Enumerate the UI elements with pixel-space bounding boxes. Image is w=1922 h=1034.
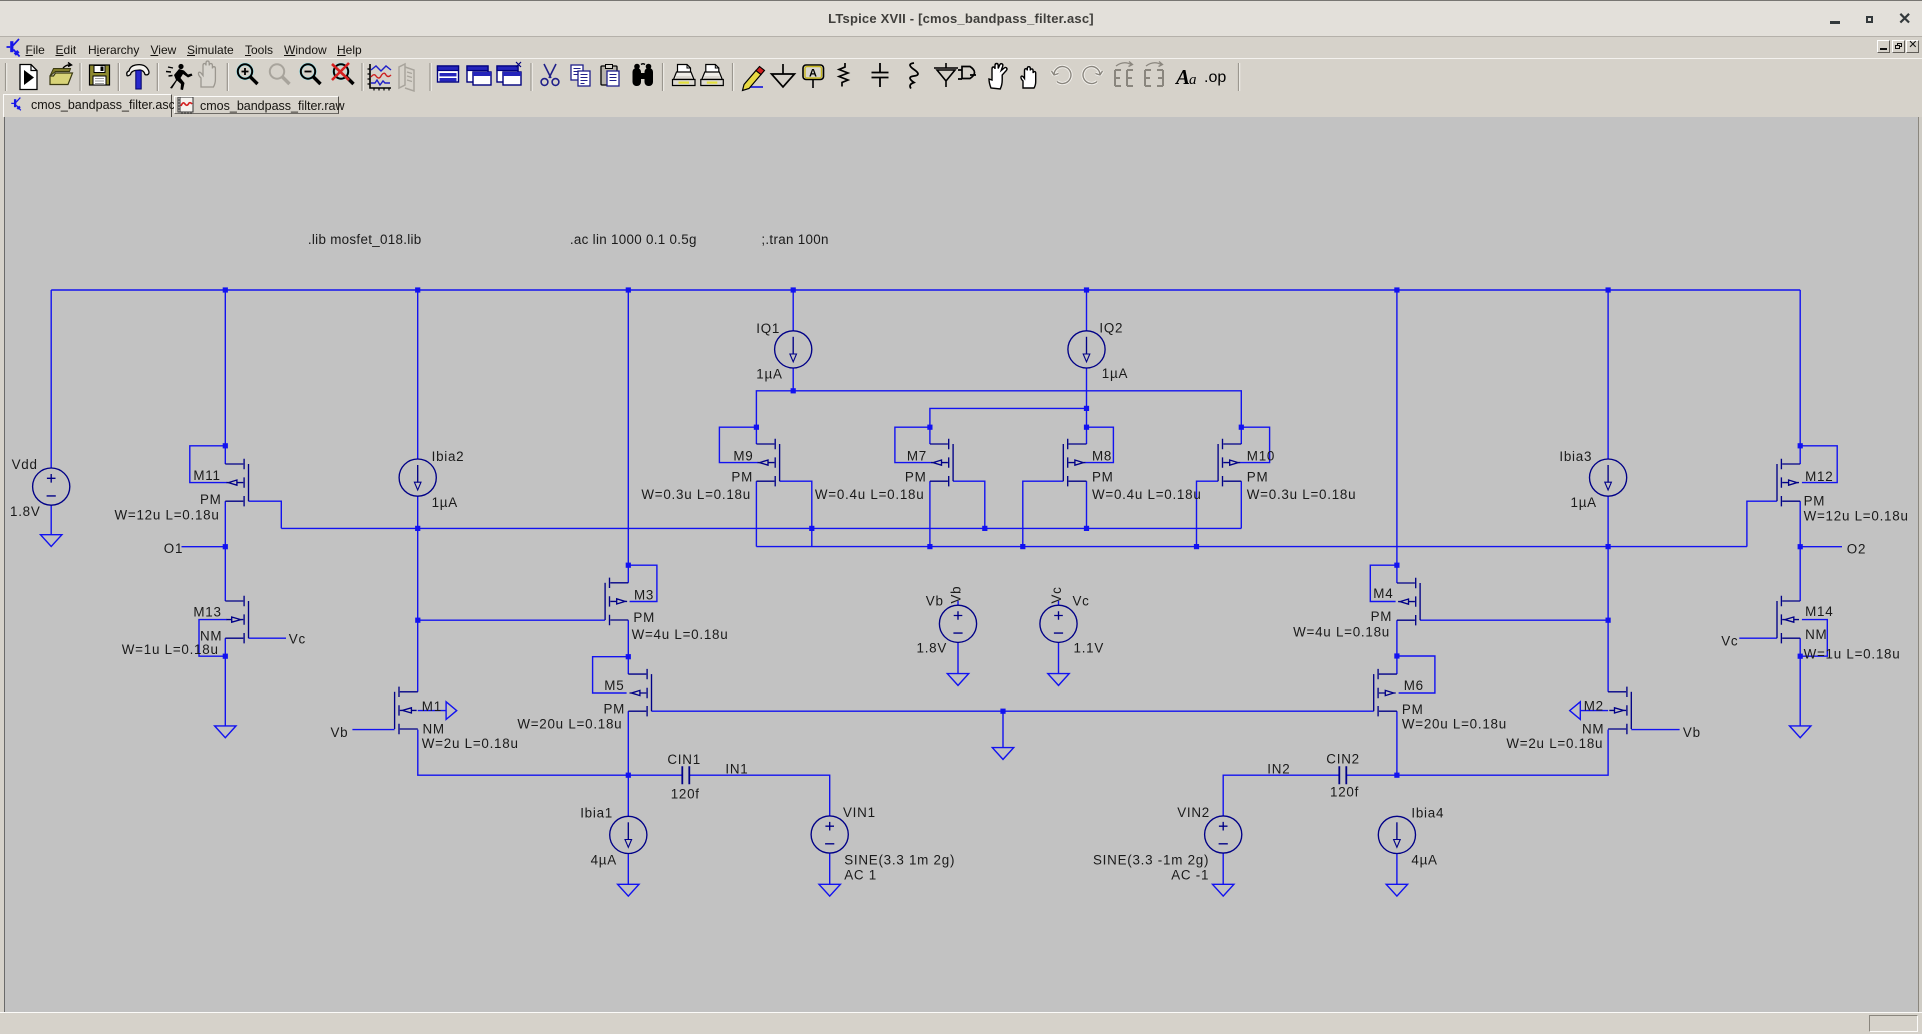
wire M3 gate line: [418, 619, 605, 621]
wire IN2 right segment: [1346, 730, 1608, 776]
wire M9 gate to upper line: [780, 481, 812, 546]
transistor M14 (NMOS): [1777, 596, 1800, 644]
svg-text:M7: M7: [907, 448, 927, 463]
wire M2 drain column: [1607, 620, 1609, 692]
ground on M5-M6 gate line: [992, 748, 1013, 760]
svg-text:W=20u L=0.18u: W=20u L=0.18u: [1402, 717, 1507, 732]
svg-text:1.8V: 1.8V: [917, 641, 948, 656]
toolbar icon: print preview: [701, 65, 724, 86]
toolbar icon: spice directive: [1204, 69, 1226, 86]
svg-text:PM: PM: [905, 470, 927, 485]
svg-text:1µA: 1µA: [1102, 366, 1128, 381]
node M6 bulk tie: [1394, 653, 1399, 658]
svg-text:A: A: [809, 68, 817, 80]
svg-text:4µA: 4µA: [591, 853, 617, 868]
inactive tab icon: [177, 97, 194, 114]
node M8 top: [1084, 425, 1089, 430]
voltage source VIN1: [811, 816, 848, 853]
toolbar icon: zoom out: [301, 64, 321, 84]
svg-text:1µA: 1µA: [1571, 495, 1597, 510]
wire Vb to ground: [957, 642, 959, 673]
toolbar icon: zoom full extents: [332, 63, 354, 84]
transistor M7 (PMOS): [930, 439, 953, 487]
node IQ1 out: [791, 388, 796, 393]
svg-text:W=0.3u L=0.18u: W=0.3u L=0.18u: [641, 487, 751, 502]
wire IN1 left segment: [418, 730, 683, 776]
svg-text:.ac lin 1000 0.1 0.5g: .ac lin 1000 0.1 0.5g: [570, 232, 697, 247]
wire Vc top stub: [1058, 601, 1060, 606]
node M14 bulk tie: [1798, 654, 1803, 659]
active tab cmos_bandpass_filter.asc: [3, 94, 172, 117]
node rail-M11: [223, 287, 228, 292]
wire M10 gate to lower line: [1197, 481, 1219, 546]
ground below M13: [215, 726, 236, 738]
toolbar icon: rotate: [1145, 62, 1163, 87]
node rail-Ibia2: [415, 287, 420, 292]
svg-text:.lib mosfet_018.lib: .lib mosfet_018.lib: [308, 232, 422, 247]
wire M9 drain to lower line: [755, 481, 757, 546]
wire IN2 left segment: [1223, 775, 1339, 816]
svg-text:Ibia4: Ibia4: [1411, 805, 1444, 820]
wire M12 gate to lower line: [1747, 501, 1777, 546]
svg-text:VIN2: VIN2: [1177, 805, 1210, 820]
svg-text:Vc: Vc: [1721, 634, 1738, 649]
ground below M14: [1790, 726, 1811, 738]
wire IN1 right segment: [689, 775, 829, 816]
node M13 bulk tie: [223, 654, 228, 659]
capacitor CIN1: [682, 766, 689, 784]
ground below Ibia1: [618, 884, 639, 896]
wire M5 drain to IN1: [627, 711, 629, 816]
node M11 gate tie: [223, 443, 228, 448]
svg-text:W=4u L=0.18u: W=4u L=0.18u: [632, 627, 729, 642]
node rail-IQ2: [1084, 287, 1089, 292]
wire M9 source column: [755, 427, 757, 444]
svg-text:120f: 120f: [1330, 784, 1359, 799]
node M9 gate-upper: [809, 526, 814, 531]
svg-text:M10: M10: [1247, 448, 1275, 463]
node M9 top: [754, 425, 759, 430]
wire M10 drain to upper line: [1240, 481, 1242, 528]
svg-text:M8: M8: [1092, 448, 1112, 463]
current source Ibia3: [1590, 459, 1627, 496]
svg-text:a: a: [1189, 72, 1197, 88]
svg-text:.op: .op: [1204, 69, 1226, 86]
svg-text:PM: PM: [1371, 609, 1393, 624]
svg-text:IN2: IN2: [1267, 761, 1290, 776]
node IQ2-M7 tie: [1084, 406, 1089, 411]
svg-text:Ibia3: Ibia3: [1559, 449, 1592, 464]
ground below VIN2: [1213, 884, 1234, 896]
ground below VIN1: [819, 884, 840, 896]
toolbar icon: run: [166, 64, 193, 90]
wire M13 gate to Vc: [249, 637, 287, 639]
node IN1-M5: [626, 773, 631, 778]
wire IQ1 top: [792, 290, 794, 331]
svg-text:M11: M11: [193, 468, 220, 483]
node rail-M3: [626, 287, 631, 292]
node rail-IQ1: [791, 287, 796, 292]
wire upper bus line: [281, 527, 1241, 529]
wire M13 source to ground: [224, 638, 226, 726]
voltage source Vdd: [33, 468, 70, 505]
svg-text:Vb: Vb: [926, 594, 944, 609]
wire M4 drain to M6: [1396, 620, 1398, 674]
wire Ibia1 to ground: [627, 854, 629, 885]
toolbar icon: zoom back (disabled): [270, 64, 290, 84]
wire VIN2 to ground: [1222, 853, 1224, 884]
current source Ibia1: [610, 816, 647, 853]
svg-text:PM: PM: [200, 492, 222, 507]
wire M11 gate to upper line: [249, 501, 282, 528]
svg-text:W=20u L=0.18u: W=20u L=0.18u: [517, 717, 622, 732]
wire M12 drain to O2: [1799, 501, 1801, 601]
wire M8 drain to upper line: [1086, 481, 1088, 528]
status bar grip panel: [1869, 1015, 1918, 1032]
wire Vb top stub: [957, 601, 959, 606]
wire M2 bulk to ground: [1580, 710, 1608, 712]
wire M5 gate-bulk loop: [593, 657, 629, 693]
toolbar icon: cascade windows 2: [497, 62, 521, 85]
toolbar icon: net label: [803, 65, 824, 88]
wire M4 gate line: [1420, 619, 1608, 621]
wire Vdd rail: [51, 289, 1800, 291]
svg-text:O2: O2: [1847, 541, 1866, 556]
svg-text:PM: PM: [633, 610, 655, 625]
node IN2-M6: [1394, 773, 1399, 778]
transistor M8 (PMOS): [1063, 439, 1086, 487]
wire M3 source column: [627, 290, 629, 583]
wire IQ2 tie line to M7: [930, 408, 1087, 427]
svg-text:Vb: Vb: [949, 586, 964, 604]
transistor M13 (NMOS): [225, 596, 248, 644]
wire lower bus line: [756, 546, 1747, 548]
node M12 gate tie: [1798, 443, 1803, 448]
wire IQ2 top: [1086, 290, 1088, 331]
node M7 top: [927, 425, 932, 430]
wire M12 source column: [1799, 290, 1801, 464]
transistor M5 (PMOS): [628, 669, 651, 717]
wire IQ2 bottom: [1086, 368, 1088, 427]
wire Vdd to rail: [50, 290, 52, 468]
toolbar icon: waveform viewer: [368, 64, 392, 91]
node M7 drain-lower: [927, 544, 932, 549]
toolbar icon: open: [50, 63, 73, 85]
node rail-M4: [1394, 287, 1399, 292]
svg-text:PM: PM: [1247, 470, 1269, 485]
wire M4 gate-bulk loop: [1370, 565, 1397, 601]
wire M7 bulk loop: [895, 427, 932, 462]
toolbar icon: cut: [541, 64, 559, 85]
svg-text:SINE(3.3 1m 2g): SINE(3.3 1m 2g): [844, 853, 955, 868]
svg-text:W=4u L=0.18u: W=4u L=0.18u: [1293, 625, 1390, 640]
svg-text:VIN1: VIN1: [843, 805, 876, 820]
wire M11 drain column: [224, 290, 226, 464]
status bar: [0, 1012, 1922, 1034]
toolbar icon: drag: [1021, 67, 1036, 88]
wire IQ1 tie line to M9 M10: [756, 391, 1241, 427]
current source Ibia4: [1378, 816, 1415, 853]
inactive tab cmos_bandpass_filter.raw: [174, 96, 339, 114]
wire M7 gate to upper line: [953, 481, 985, 528]
svg-text:IQ1: IQ1: [756, 321, 780, 336]
toolbar icon: draw wire: [743, 67, 765, 91]
svg-text:CIN1: CIN1: [667, 752, 701, 767]
ground below Vc: [1048, 674, 1069, 686]
svg-text:W=12u L=0.18u: W=12u L=0.18u: [1804, 508, 1909, 523]
svg-text:M9: M9: [733, 448, 753, 463]
node Ibia2-upper: [415, 526, 420, 531]
svg-text:PM: PM: [1092, 470, 1114, 485]
menu bar: [0, 38, 1922, 59]
node O1: [223, 544, 228, 549]
wire M1 bulk to ground: [418, 710, 446, 712]
node M7 gate-upper: [982, 526, 987, 531]
transistor M12 (PMOS): [1777, 459, 1800, 507]
toolbar icon: print: [673, 65, 696, 86]
svg-text:CIN2: CIN2: [1326, 751, 1360, 766]
toolbar icon: place diode: [934, 63, 958, 87]
svg-text:M4: M4: [1373, 586, 1393, 601]
close button: [1898, 15, 1909, 26]
wire M8 gate to lower line: [1023, 481, 1064, 546]
svg-text:PM: PM: [1804, 494, 1826, 509]
svg-text:NM: NM: [423, 721, 445, 736]
wire VIN1 to ground: [829, 853, 831, 884]
voltage source Vc: [1040, 605, 1077, 642]
node M5 bulk tie: [626, 654, 631, 659]
wire IQ1 bottom: [792, 368, 794, 391]
wire Vc to ground: [1058, 642, 1060, 673]
toolbar icon: zoom in: [238, 64, 258, 84]
wire Vdd to ground: [50, 505, 52, 534]
maximize button: [1866, 16, 1873, 23]
svg-text:W=1u L=0.18u: W=1u L=0.18u: [1804, 647, 1901, 662]
ground below Ibia4: [1386, 884, 1407, 896]
node Ibia3-lower: [1606, 544, 1611, 549]
svg-text:PM: PM: [604, 701, 626, 716]
svg-text:M3: M3: [634, 588, 654, 603]
document tabs: [0, 94, 1922, 117]
ground at M1 bulk: [446, 702, 457, 720]
svg-text:M2: M2: [1584, 698, 1604, 713]
ground below Vdd: [41, 535, 62, 547]
svg-text:W=0.4u L=0.18u: W=0.4u L=0.18u: [1092, 487, 1202, 502]
svg-text:O1: O1: [164, 541, 183, 556]
wire M6 drain to IN2: [1396, 711, 1398, 775]
wire M12 gate-bulk loop: [1800, 446, 1837, 483]
wire M10 source column: [1240, 427, 1242, 444]
svg-text:120f: 120f: [671, 786, 700, 801]
svg-text:M14: M14: [1805, 604, 1833, 619]
current source IQ1: [775, 331, 812, 368]
toolbar icon: copy: [571, 65, 590, 86]
capacitor CIN2: [1339, 766, 1346, 784]
svg-text:IN1: IN1: [725, 761, 748, 776]
svg-text:4µA: 4µA: [1411, 853, 1437, 868]
toolbar icon: hammer: [127, 65, 149, 89]
ground below Vb: [947, 674, 968, 686]
svg-text:Vc: Vc: [1073, 594, 1090, 609]
wire M13 bulk loop: [199, 620, 227, 657]
transistor M3 (PMOS): [605, 578, 628, 626]
svg-text:Vb: Vb: [1683, 725, 1701, 740]
toolbar icon: view netlist (disabled): [399, 64, 414, 91]
svg-text:Ibia2: Ibia2: [432, 449, 465, 464]
voltage source Vb: [939, 605, 976, 642]
wire Ibia4 to ground: [1396, 854, 1398, 885]
wire M8 source column: [1086, 427, 1088, 444]
toolbar icon: place resistor: [839, 63, 848, 87]
toolbar icon: redo: [1083, 67, 1103, 84]
svg-text:M5: M5: [604, 678, 624, 693]
wire M5-M6 gate ground line: [652, 710, 1374, 712]
voltage source VIN2: [1205, 816, 1242, 853]
wire M3 drain to M5: [627, 620, 629, 674]
svg-text:PM: PM: [731, 470, 753, 485]
wire O2 label stub: [1800, 546, 1842, 548]
node M2 drain: [1606, 618, 1611, 623]
toolbar icon: move: [989, 64, 1007, 90]
toolbar separator: [5, 63, 7, 91]
svg-text:1µA: 1µA: [756, 366, 782, 381]
svg-text:NM: NM: [1805, 627, 1827, 642]
toolbar: [0, 60, 1922, 94]
svg-text:SINE(3.3 -1m 2g): SINE(3.3 -1m 2g): [1093, 853, 1209, 868]
wire M11 to O1: [224, 501, 226, 601]
svg-text:IQ2: IQ2: [1099, 321, 1123, 336]
toolbar icon: place inductor: [910, 63, 918, 89]
node M1 drain: [415, 618, 420, 623]
node gate line gnd: [1000, 709, 1005, 714]
toolbar icon: text: [1174, 65, 1197, 89]
toolbar icon: place capacitor: [872, 63, 889, 87]
svg-text:W=12u L=0.18u: W=12u L=0.18u: [115, 507, 220, 522]
toolbar icon: paste: [601, 65, 619, 87]
svg-text:M12: M12: [1805, 469, 1833, 484]
toolbar icon: halt (disabled): [198, 61, 215, 87]
window title bar: [0, 0, 1922, 37]
svg-text:M13: M13: [193, 605, 221, 620]
transistor M2 (NMOS): [1608, 687, 1631, 735]
svg-text:1µA: 1µA: [432, 495, 458, 510]
svg-text:PM: PM: [1402, 702, 1424, 717]
toolbar icon: find: [633, 64, 654, 86]
wire gate line ground drop: [1002, 711, 1004, 747]
node M4 gate tie: [1394, 563, 1399, 568]
toolbar icon: new schematic: [20, 65, 37, 90]
svg-text:1.8V: 1.8V: [10, 504, 41, 519]
current source IQ2: [1068, 331, 1105, 368]
node M10 top: [1239, 425, 1244, 430]
LTspice app icon: [2, 38, 24, 59]
svg-text:W=1u L=0.18u: W=1u L=0.18u: [122, 642, 219, 657]
svg-text:Ibia1: Ibia1: [580, 805, 613, 820]
transistor M11 (PMOS): [225, 459, 248, 507]
current source Ibia2: [399, 459, 436, 496]
wire M9 bulk loop: [719, 427, 758, 462]
node O2: [1798, 544, 1803, 549]
svg-text:W=2u L=0.18u: W=2u L=0.18u: [1506, 736, 1603, 751]
wire M3 gate-bulk loop: [628, 565, 657, 601]
MDI restore buttons: [1877, 40, 1890, 53]
toolbar icon: place ground: [772, 64, 795, 87]
wire M14 gate to Vc: [1739, 637, 1777, 639]
svg-text:AC 1: AC 1: [844, 868, 877, 883]
svg-text:;.tran 100n: ;.tran 100n: [761, 232, 828, 247]
toolbar icon: cascade windows: [467, 66, 491, 85]
svg-text:A: A: [1174, 65, 1190, 89]
svg-text:Vdd: Vdd: [12, 457, 38, 472]
wire Ibia3 top: [1607, 290, 1609, 459]
transistor M1 (NMOS): [395, 687, 418, 735]
wire O1 label stub: [182, 546, 226, 548]
wire Ibia2 to M1 drain: [417, 528, 419, 691]
svg-text:W=0.3u L=0.18u: W=0.3u L=0.18u: [1247, 487, 1357, 502]
node M3 gate tie: [626, 563, 631, 568]
svg-text:Vc: Vc: [1049, 586, 1064, 603]
toolbar icon: tile windows: [438, 66, 459, 82]
node M10 gate-lower: [1194, 544, 1199, 549]
wire M8 bulk loop: [1085, 427, 1114, 462]
toolbar icon: save: [90, 65, 110, 85]
svg-text:NM: NM: [200, 628, 222, 643]
minimize button: [1830, 21, 1840, 24]
wire Ibia2 top: [417, 290, 419, 459]
svg-text:AC -1: AC -1: [1171, 868, 1209, 883]
transistor M6 (PMOS): [1374, 669, 1397, 717]
right window frame strip: [1918, 116, 1922, 1012]
transistor M10 (PMOS): [1218, 439, 1241, 487]
svg-text:1.1V: 1.1V: [1074, 641, 1105, 656]
transistor M4 (PMOS): [1397, 578, 1420, 626]
wire M1 gate to Vb: [352, 729, 394, 731]
wire M4 source column: [1396, 290, 1398, 583]
wire M6 gate-bulk loop: [1397, 656, 1435, 693]
svg-text:M1: M1: [422, 699, 442, 714]
svg-text:NM: NM: [1582, 721, 1604, 736]
wire M7 drain to lower line: [929, 481, 931, 546]
wire M11 gate-bulk loop: [190, 446, 227, 483]
wire M2 gate to Vb: [1631, 729, 1679, 731]
toolbar icon: undo: [1052, 67, 1072, 84]
toolbar icon: place component: [958, 67, 976, 80]
toolbar icon: mirror: [1115, 62, 1133, 87]
wire Ibia2 bottom: [417, 496, 419, 528]
wire M7 source column: [929, 427, 931, 444]
node M8 gate-lower: [1020, 544, 1025, 549]
wire M14 bulk loop: [1800, 620, 1827, 657]
svg-text:W=2u L=0.18u: W=2u L=0.18u: [422, 736, 519, 751]
ground at M2 bulk: [1570, 702, 1581, 720]
wire M14 source to ground: [1799, 638, 1801, 726]
svg-text:Vc: Vc: [289, 632, 306, 647]
active tab icon: [8, 96, 24, 113]
node M8 drain-upper: [1084, 526, 1089, 531]
svg-text:Vb: Vb: [331, 725, 349, 740]
svg-text:M6: M6: [1404, 678, 1424, 693]
wire Ibia3 bottom: [1607, 496, 1609, 620]
node rail-Ibia3: [1606, 287, 1611, 292]
transistor M9 (PMOS): [756, 439, 779, 487]
svg-text:W=0.4u L=0.18u: W=0.4u L=0.18u: [815, 487, 925, 502]
wire M10 bulk loop: [1240, 427, 1270, 462]
